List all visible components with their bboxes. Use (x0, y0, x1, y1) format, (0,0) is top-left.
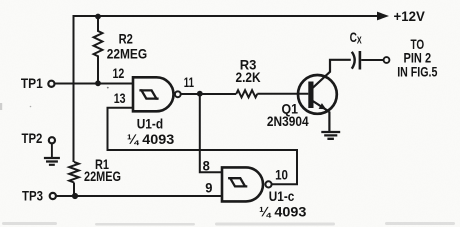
svg-text:TP3: TP3 (22, 187, 43, 203)
schmitt symbol U1-d (139, 90, 158, 98)
wire pin13 to pin10 feedback (108, 108, 298, 185)
svg-text:22MEG: 22MEG (84, 168, 121, 184)
wire emitter to ground (328, 112, 330, 132)
transistor Q1 base bar (308, 82, 313, 109)
capacitor Cx right plate (359, 51, 362, 70)
wire pin11 output (181, 93, 237, 95)
svg-text:¼ 4093: ¼ 4093 (259, 204, 306, 220)
terminal output (384, 57, 390, 63)
op gate U1-d body (133, 77, 174, 111)
terminal TP2 (49, 137, 55, 143)
svg-text:U1-c: U1-c (269, 188, 295, 204)
wire Cx to terminal (361, 59, 383, 61)
transistor Q1 emitter (312, 101, 329, 112)
svg-text:2N3904: 2N3904 (267, 113, 309, 129)
terminal TP3 (50, 193, 56, 199)
svg-text:TP2: TP2 (22, 130, 43, 146)
node R2 top junction (95, 14, 101, 20)
terminal TP1 (48, 81, 54, 87)
node TP3 junction (72, 193, 78, 199)
capacitor Cx left plate (352, 52, 355, 69)
ground TP2 (44, 158, 60, 165)
svg-text:2.2K: 2.2K (236, 69, 261, 85)
svg-text:10: 10 (275, 166, 288, 182)
resistor R1 (69, 162, 79, 182)
node R2 bottom junction (95, 80, 101, 86)
svg-text:8: 8 (203, 157, 210, 173)
emitter arrowhead (319, 103, 327, 109)
transistor Q1 collector (312, 60, 351, 89)
svg-text:U1-d: U1-d (137, 116, 163, 132)
svg-text:R2: R2 (119, 30, 133, 46)
node pin11 junction (197, 91, 203, 97)
svg-text:IN FIG.5: IN FIG.5 (397, 63, 437, 79)
wire TP2 to ground (51, 143, 53, 157)
schmitt symbol U1-c (228, 178, 247, 186)
wire TP1 to pin 12 (54, 83, 132, 85)
svg-text:12: 12 (113, 65, 125, 81)
transistor Q1 circle (298, 75, 337, 114)
wire R1 bottom (73, 183, 75, 197)
scan artifacts bottom (2, 222, 455, 226)
arrowhead +12V (377, 12, 389, 21)
scan specks (107, 87, 109, 89)
wire left rail (73, 15, 75, 162)
svg-text:TP1: TP1 (21, 75, 43, 91)
svg-text:13: 13 (114, 90, 126, 106)
bubble U1-d output (175, 91, 181, 97)
resistor R2 (94, 16, 103, 84)
svg-text:22MEG: 22MEG (107, 46, 148, 62)
bubble U1-c output (265, 181, 271, 187)
wire +12V top rail (73, 15, 378, 17)
wire pin11 to pin8 (200, 94, 221, 172)
svg-text:11: 11 (184, 74, 194, 90)
ground Q1 (321, 132, 340, 139)
resistor R3 (236, 90, 257, 97)
wire TP3 to pin 9 (56, 195, 222, 197)
svg-text:+12V: +12V (394, 8, 426, 24)
svg-text:¼ 4093: ¼ 4093 (127, 131, 174, 147)
op gate U1-c body (222, 167, 263, 201)
wire R3 to Q1 base (257, 93, 308, 95)
svg-text:9: 9 (205, 180, 212, 196)
